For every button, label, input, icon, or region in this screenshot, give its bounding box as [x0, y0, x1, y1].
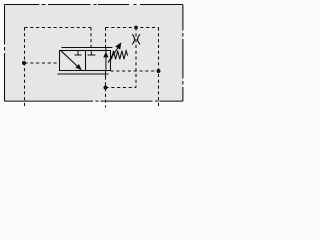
wire pilot branch to valve left	[25, 62, 60, 64]
wire drain stub solid	[105, 71, 107, 77]
wire port 1 vertical	[24, 28, 26, 107]
spring	[111, 51, 128, 60]
valve V1 top rail	[62, 47, 113, 49]
enclosure border right (chain line)	[182, 5, 184, 102]
junction dot drain	[104, 86, 108, 90]
enclosure border left (chain line)	[4, 5, 6, 102]
wire orifice vertical	[135, 28, 137, 88]
T plug left box	[75, 51, 82, 56]
junction dot spring pilot	[157, 69, 161, 73]
enclosure border top (chain line)	[5, 4, 183, 6]
orifice right arc	[138, 34, 141, 44]
flow arrow shaft right box	[105, 48, 107, 70]
arrow in left box (throttle path)	[61, 51, 77, 66]
wire pilot drop right	[105, 28, 107, 48]
adjustment arrow shaft	[108, 48, 118, 63]
valve V1 envelope	[60, 51, 111, 71]
wire spring-side pilot	[111, 70, 159, 72]
wire pilot top-left dashed	[25, 27, 92, 29]
wire bottom drain link	[106, 87, 137, 89]
wire port 3 vertical	[158, 28, 160, 108]
junction dot orifice top	[134, 26, 138, 30]
junction dot port1 pilot	[22, 61, 26, 65]
wire port 2 vertical dashed	[105, 77, 107, 108]
orifice left arc	[132, 34, 135, 44]
arrowhead right box flow arrow	[103, 52, 108, 58]
enclosure border bottom (chain line)	[5, 100, 183, 102]
wire pilot drop left	[90, 28, 92, 48]
valve V1 bottom rail	[58, 73, 109, 75]
arrowhead adjustment arrow	[115, 42, 121, 49]
enclosure fill	[5, 5, 183, 102]
T plug right box	[88, 51, 96, 56]
arrowhead left box	[75, 64, 82, 70]
wire pilot top-right dashed	[106, 27, 159, 29]
valve V1 box divider	[85, 51, 87, 71]
